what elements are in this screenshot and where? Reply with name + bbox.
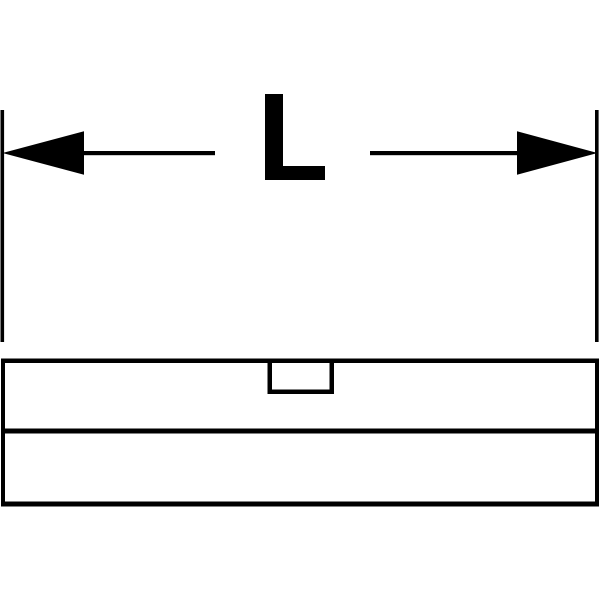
label L xyxy=(265,94,325,180)
right arrowhead xyxy=(517,131,598,174)
left extension line xyxy=(1,110,5,342)
left arrowhead xyxy=(3,131,85,174)
wire-stop notch bottom edge xyxy=(268,390,335,395)
connector seam line (middle) xyxy=(1,429,599,434)
wire-stop notch left edge xyxy=(268,361,273,394)
wire-stop notch right edge xyxy=(330,361,335,394)
connector body right edge xyxy=(595,359,599,507)
right extension line xyxy=(595,110,599,342)
connector body top edge xyxy=(1,359,599,364)
dimension line right segment xyxy=(370,151,517,155)
dimension line left segment xyxy=(83,151,215,155)
connector body bottom edge xyxy=(1,502,599,507)
connector body left edge xyxy=(1,359,5,507)
